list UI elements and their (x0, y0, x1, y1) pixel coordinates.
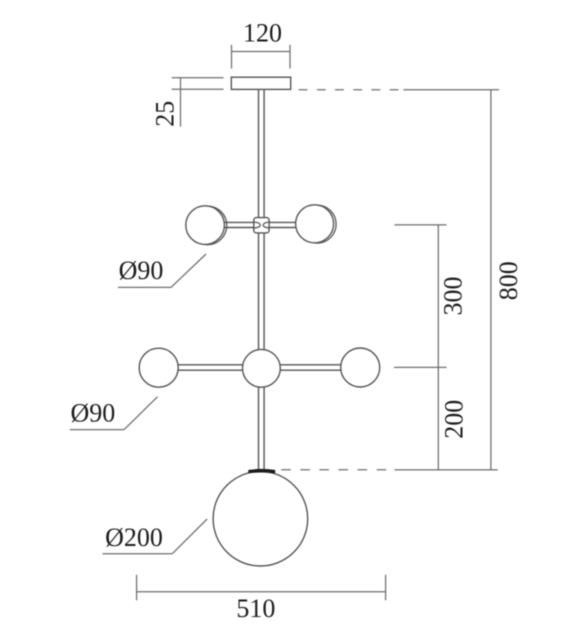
dimension text 300 (438, 277, 467, 316)
lower left sphere (139, 348, 178, 387)
dimension line 510 (137, 575, 386, 601)
leader line for lower sphere diameter (70, 397, 158, 430)
upper arm bar (204, 222, 316, 227)
300-200 dimension vertical line (437, 225, 439, 470)
svg-text:Ø90: Ø90 (71, 398, 116, 427)
upper left sphere shadow arc (188, 206, 227, 245)
dimension text 800 (494, 261, 523, 300)
lower right sphere (341, 348, 380, 387)
lower arm bar (158, 365, 361, 370)
dimension text 510 (236, 594, 275, 623)
300 dimension top tick (395, 224, 447, 226)
dimension text 25 (151, 101, 180, 127)
svg-text:120: 120 (243, 19, 282, 48)
dashed globe reference line (281, 469, 498, 471)
dashed ceiling reference line (299, 89, 499, 91)
dimension line 120 (232, 45, 291, 69)
dimension text 200 (439, 400, 468, 439)
upper arm connector block (254, 218, 269, 233)
dimension line 800 vertical (490, 90, 492, 470)
stem wire (259, 89, 265, 470)
svg-text:25: 25 (151, 101, 180, 127)
svg-text:300: 300 (438, 277, 467, 316)
diameter label 200 (105, 523, 163, 552)
dimension 25 extension lines (172, 77, 224, 127)
svg-text:800: 800 (494, 261, 523, 300)
leader line for globe diameter (103, 519, 208, 554)
upper right sphere shadow arc (298, 205, 336, 243)
diameter label 90 upper (119, 256, 164, 285)
300-200 dimension middle tick (394, 366, 447, 368)
upper left sphere (186, 206, 225, 245)
globe sphere (213, 471, 308, 566)
globe cap fitting (249, 470, 275, 473)
ceiling plate (231, 77, 290, 89)
svg-text:200: 200 (439, 400, 468, 439)
diameter label 90 lower (71, 398, 116, 427)
dimension text 120 (243, 19, 282, 48)
lower center sphere (243, 349, 281, 387)
svg-text:Ø200: Ø200 (105, 523, 163, 552)
upper right sphere (296, 205, 334, 243)
leader line for upper sphere diameter (118, 254, 206, 287)
svg-text:Ø90: Ø90 (119, 256, 164, 285)
svg-text:510: 510 (236, 594, 275, 623)
